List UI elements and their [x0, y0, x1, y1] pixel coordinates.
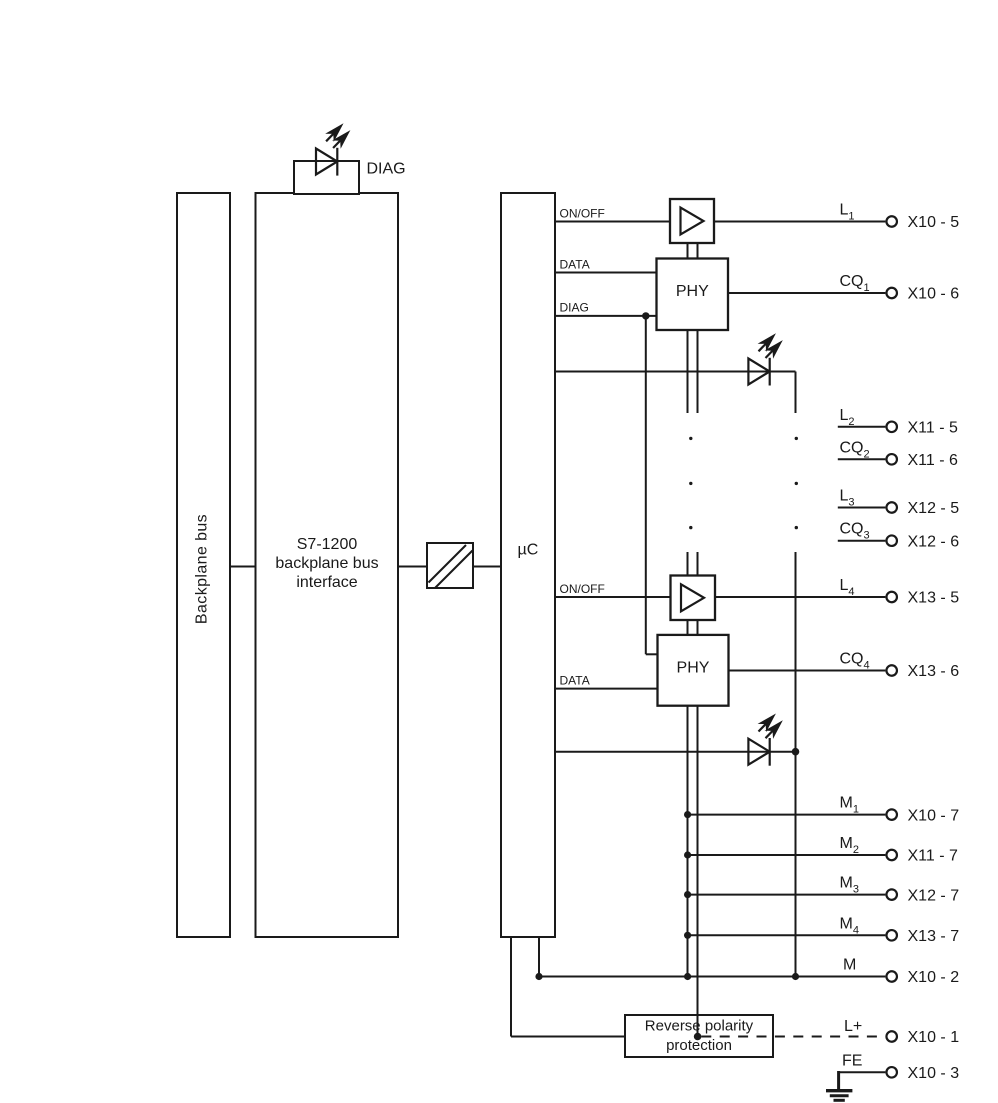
wire uC supply to reverse polarity protection [511, 1036, 625, 1038]
junction M3 [684, 891, 691, 898]
svg-text:X13 - 5: X13 - 5 [908, 590, 960, 607]
block S7-1200 backplane bus interface [256, 193, 399, 937]
ellipsis dots channel repeat right [795, 437, 798, 530]
svg-text:X12 - 5: X12 - 5 [908, 500, 960, 517]
isolation barrier diagonal 1 [429, 545, 467, 583]
terminal X11-7 [886, 850, 897, 861]
wire M1 [688, 814, 886, 816]
PHY U2 [657, 259, 729, 331]
svg-text:ON/OFF: ON/OFF [560, 206, 605, 220]
wire CQ4 [729, 670, 885, 672]
wire L4 [715, 596, 885, 598]
svg-text:FE: FE [842, 1053, 862, 1070]
isolation barrier U1 [427, 543, 473, 588]
svg-text:L+: L+ [844, 1018, 862, 1035]
terminal X10-3 [886, 1067, 897, 1078]
svg-text:X10 - 1: X10 - 1 [908, 1029, 960, 1046]
svg-text:X11 - 6: X11 - 6 [908, 452, 959, 469]
wire uC bottom left down [510, 937, 512, 1037]
wire CQ3 [838, 540, 886, 542]
terminal X13-5 [886, 592, 897, 603]
junction M2 [684, 851, 691, 858]
svg-text:X12 - 6: X12 - 6 [908, 533, 960, 550]
svg-text:CQ4: CQ4 [840, 651, 870, 672]
wire amp A1 to PHY U2 right [697, 243, 699, 259]
svg-text:L3: L3 [840, 488, 855, 509]
svg-text:M1: M1 [840, 795, 859, 816]
svg-text:DATA: DATA [560, 673, 590, 687]
junction M4 [684, 932, 691, 939]
wire L2 [838, 426, 886, 428]
terminal X12-5 [886, 502, 897, 513]
block Backplane bus [177, 193, 230, 937]
terminal X13-6 [886, 665, 897, 676]
wire DATA 2 [555, 688, 658, 690]
terminal X10-1 [886, 1031, 897, 1042]
svg-text:protection: protection [666, 1037, 732, 1054]
svg-text:L4: L4 [840, 577, 855, 598]
svg-text:CQ3: CQ3 [840, 521, 870, 542]
driver amplifier A1 [670, 199, 714, 243]
wire amp A1 to PHY U2 left [687, 243, 689, 259]
svg-text:PHY: PHY [676, 283, 709, 300]
svg-text:X10 - 7: X10 - 7 [908, 807, 960, 824]
wire M3 [688, 894, 886, 896]
wire PHY U2 down right [697, 330, 699, 413]
wire L3 [838, 507, 886, 509]
junction L+ in protection block [694, 1033, 702, 1041]
svg-text:M3: M3 [840, 875, 859, 896]
terminal X11-5 [886, 422, 897, 433]
svg-text:backplane bus: backplane bus [275, 555, 378, 572]
wire amp A2 to PHY U3 left [687, 620, 689, 635]
svg-text:X13 - 7: X13 - 7 [908, 928, 960, 945]
svg-text:X13 - 6: X13 - 6 [908, 663, 960, 680]
wire uC bottom right down to M [538, 937, 540, 977]
svg-text:X10 - 6: X10 - 6 [908, 286, 960, 303]
wire backplane bus to S7 interface [230, 566, 256, 568]
svg-text:Reverse polarity: Reverse polarity [645, 1017, 754, 1034]
wire resume to amp A2 right [697, 552, 699, 576]
svg-text:PHY: PHY [677, 660, 710, 677]
wire LED1 cathode rail down [795, 372, 797, 414]
svg-text:X10 - 3: X10 - 3 [908, 1065, 960, 1082]
junction M left [535, 973, 542, 980]
LED D2 arrows [759, 716, 781, 738]
wire S7 interface to isolation [398, 566, 427, 568]
wire M4 [688, 934, 886, 936]
junction DIAG 1 [642, 312, 649, 319]
reverse polarity protection block [625, 1015, 773, 1057]
junction M1 [684, 811, 691, 818]
wire PHY U3 down to reverse polarity protection [697, 706, 699, 1037]
svg-text:L1: L1 [840, 202, 855, 223]
junction LED2 rail [792, 748, 800, 756]
svg-text:S7-1200: S7-1200 [297, 536, 358, 553]
terminal X10-5 [886, 216, 897, 227]
wire DATA 1 [555, 272, 657, 274]
terminal X11-6 [886, 454, 897, 465]
wire ON/OFF 1 [555, 221, 670, 223]
LED DIAG box [294, 161, 359, 194]
terminal X10-6 [886, 288, 897, 299]
svg-text:interface: interface [296, 574, 357, 591]
LED D1 arrows [759, 336, 781, 358]
LED D1 [748, 358, 769, 386]
wire LED1 drive [555, 371, 796, 373]
svg-text:X11 - 7: X11 - 7 [908, 848, 959, 865]
svg-text:X11 - 5: X11 - 5 [908, 420, 959, 437]
wire ON/OFF 2 [555, 596, 671, 598]
wire DIAG vertical rail [645, 316, 647, 654]
wire CQ1 [728, 292, 885, 294]
svg-text:ON/OFF: ON/OFF [560, 582, 605, 596]
junction M right [792, 973, 799, 980]
wire CQ2 [838, 458, 886, 460]
svg-text:CQ1: CQ1 [840, 273, 870, 294]
terminal X12-7 [886, 889, 897, 900]
ground FE symbol [826, 1071, 852, 1100]
driver amplifier A2 [671, 576, 716, 621]
terminal X10-7 [886, 809, 897, 820]
wire DIAG 1 [555, 315, 657, 317]
wire PHY U3 down to M rail [687, 706, 689, 977]
wire L+ dashed [701, 1036, 884, 1038]
svg-text:DATA: DATA [560, 257, 590, 271]
svg-text:M: M [843, 957, 856, 974]
svg-text:Backplane bus: Backplane bus [194, 514, 211, 624]
svg-text:X10 - 5: X10 - 5 [908, 214, 960, 231]
wire LED2 drive [555, 751, 796, 753]
LED DIAG arrows [326, 126, 348, 148]
junction M mid [684, 973, 691, 980]
isolation barrier diagonal 2 [435, 551, 473, 589]
wire LED rail resume down [795, 552, 797, 977]
svg-text:X10 - 2: X10 - 2 [908, 969, 960, 986]
terminal X12-6 [886, 535, 897, 546]
wire L1 [714, 221, 885, 223]
svg-text:M2: M2 [840, 835, 859, 856]
svg-text:M4: M4 [840, 915, 859, 936]
terminal X13-7 [886, 930, 897, 941]
LED DIAG diode [316, 148, 337, 176]
svg-text:L2: L2 [840, 407, 855, 428]
wire resume to amp A2 left [687, 552, 689, 576]
wire M2 [688, 854, 886, 856]
terminal X10-2 [886, 971, 897, 982]
svg-text:µC: µC [518, 542, 539, 559]
svg-text:DIAG: DIAG [560, 301, 589, 315]
svg-text:CQ2: CQ2 [840, 439, 870, 460]
LED D2 [748, 738, 769, 766]
svg-text:DIAG: DIAG [367, 161, 406, 178]
wire FE [839, 1071, 886, 1073]
wire PHY U2 down left [687, 330, 689, 413]
PHY U3 [658, 635, 729, 706]
wire M [539, 976, 885, 978]
wire DIAG rail into PHY U3 [646, 653, 658, 655]
wire amp A2 to PHY U3 right [697, 620, 699, 635]
wire isolation to uC [473, 566, 501, 568]
block uC (microcontroller) [501, 193, 555, 937]
ellipsis dots channel repeat left [689, 437, 692, 530]
svg-text:X12 - 7: X12 - 7 [908, 887, 960, 904]
